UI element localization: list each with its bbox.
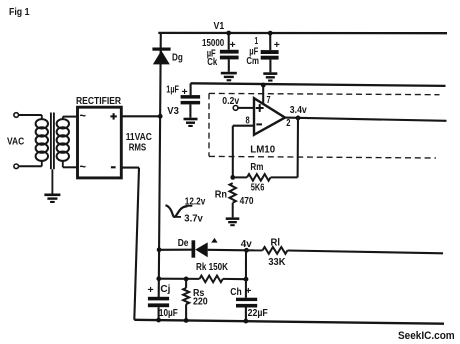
svg-text:Cm: Cm — [246, 56, 259, 67]
transformer T1 primary terminals — [14, 113, 19, 169]
resistor Rs — [183, 279, 189, 320]
svg-text:Ch: Ch — [230, 287, 241, 298]
junction rectifier + on main bus — [158, 114, 163, 119]
wire: De diode left segment — [159, 249, 191, 251]
svg-text:Rk 150K: Rk 150K — [196, 262, 228, 273]
op-amp minus input symbol — [256, 123, 262, 125]
wire: 0.2v terminal to op-amp + input — [238, 107, 254, 109]
svg-text:+: + — [148, 284, 154, 296]
junction Rm/Rn/pin8 node — [230, 175, 235, 180]
svg-text:220: 220 — [193, 296, 208, 307]
svg-text:VAC: VAC — [7, 137, 25, 148]
wire: VAC top lead — [19, 114, 42, 116]
ripple waveform annotation — [166, 205, 193, 217]
svg-text:Rl: Rl — [271, 238, 281, 249]
junction Cj bottom on rail — [156, 318, 161, 323]
resistor Rn — [230, 183, 236, 217]
svg-text:3.7v: 3.7v — [184, 214, 203, 225]
junction 4v node — [244, 248, 249, 253]
wire: bottom ground rail — [134, 320, 444, 324]
dashed boundary of LM10 module: left edge — [208, 93, 210, 156]
dashed boundary of LM10 module: top edge — [209, 93, 440, 94]
svg-text:RMS: RMS — [129, 143, 147, 154]
capacitor Ch labels — [230, 285, 268, 319]
transformer T1 secondary winding — [57, 117, 69, 168]
capacitor V3 value and polarity labels — [166, 84, 187, 117]
wire: secondary top lead to rectifier — [63, 116, 78, 118]
op-amp plus input symbol — [256, 104, 264, 112]
dashed boundary of LM10 module: bottom edge — [209, 156, 436, 158]
svg-text:22µF: 22µF — [248, 308, 268, 319]
wire: V3 regulated rail — [191, 83, 446, 86]
wire: negative bus vertical — [134, 168, 139, 320]
svg-text:Cj: Cj — [160, 284, 170, 295]
svg-text:+: + — [230, 39, 236, 51]
svg-text:Rm: Rm — [250, 162, 263, 173]
label 11VAC RMS — [126, 132, 153, 153]
rectifier plus output mark — [110, 113, 116, 119]
svg-text:+: + — [245, 285, 251, 297]
junction De wire on main bus — [157, 247, 162, 252]
svg-text:V1: V1 — [214, 21, 225, 32]
junction on V1 rail at Cm — [268, 31, 273, 36]
svg-text:~: ~ — [80, 109, 87, 123]
rectifier minus output mark — [111, 166, 116, 168]
svg-text:V3: V3 — [167, 106, 179, 117]
pin 8 wire — [233, 125, 254, 127]
svg-text:0.2v: 0.2v — [222, 96, 239, 107]
small arrow marker above De — [211, 238, 217, 243]
svg-text:+: + — [274, 39, 280, 51]
svg-text:5K6: 5K6 — [251, 182, 265, 193]
svg-text:Ck: Ck — [207, 57, 217, 68]
capacitor Ck — [220, 33, 239, 72]
capacitor Ck value and polarity labels — [202, 38, 236, 68]
resistor Rm — [233, 174, 298, 181]
wire: De diode right segment to 4v node — [208, 249, 247, 252]
svg-text:15000: 15000 — [202, 38, 225, 49]
svg-text:33K: 33K — [268, 257, 286, 268]
diode Dg — [152, 48, 170, 65]
ground for Cm — [263, 72, 277, 81]
rectifier bridge U2 box — [78, 107, 122, 178]
wire: V1 top rail — [158, 32, 447, 35]
svg-text:10µF: 10µF — [159, 308, 178, 319]
resistor Rk — [159, 276, 246, 283]
op-amp U1 LM10 triangle — [254, 98, 285, 135]
wire: feedback vertical from output to Rm — [297, 118, 299, 177]
capacitor Ch — [236, 298, 257, 321]
svg-text:1µF: 1µF — [166, 84, 179, 95]
ground for V3 capacitor — [184, 118, 198, 127]
svg-text:+: + — [182, 86, 188, 98]
resistor Rl — [247, 247, 444, 254]
wire: Ch vertical from 4v node — [245, 250, 247, 297]
junction Rs bottom on rail — [184, 318, 189, 323]
capacitor Cj — [148, 297, 169, 320]
junction Rk wire on main bus — [156, 276, 161, 281]
ground for Ck — [221, 72, 237, 81]
transformer T1 core — [51, 113, 54, 170]
junction Rk right / Ch line — [244, 277, 249, 282]
wire: VAC bottom lead — [19, 165, 42, 167]
svg-text:De: De — [178, 238, 189, 249]
junction Ch bottom on rail — [244, 319, 249, 324]
junction pin7 on V3 rail — [261, 83, 266, 88]
svg-text:LM10: LM10 — [250, 144, 275, 155]
svg-text:8: 8 — [246, 115, 251, 126]
capacitor V3 (1uF) — [181, 83, 201, 117]
junction on V1 rail at Ck — [226, 31, 231, 36]
svg-text:SeekIC.com: SeekIC.com — [398, 330, 455, 342]
wire: pin8 vertical down to Rm/Rn node — [232, 126, 234, 178]
svg-text:3.4v: 3.4v — [290, 105, 307, 116]
capacitor Cj labels — [148, 284, 178, 319]
capacitor Cm value and polarity labels — [246, 36, 280, 67]
junction on output at feedback tap — [296, 116, 301, 121]
junction Rs top — [184, 277, 189, 282]
svg-text:Fig 1: Fig 1 — [9, 7, 30, 18]
wire: secondary bottom lead to rectifier — [63, 166, 78, 168]
wire: op-amp output line to right edge — [285, 118, 447, 121]
svg-text:2: 2 — [286, 118, 291, 129]
wire: transformer center tap to ground — [51, 169, 53, 193]
svg-text:RECTIFIER: RECTIFIER — [76, 96, 122, 107]
wire: rectifier + output to main bus — [121, 115, 160, 117]
transformer T1 primary winding — [36, 115, 48, 166]
svg-text:12.2v: 12.2v — [185, 197, 206, 208]
svg-text:470: 470 — [240, 196, 254, 207]
wire: main vertical bus (diode Dg anode line down to Cj) — [159, 33, 161, 297]
ground for transformer — [44, 194, 60, 204]
ground for Rn — [226, 217, 240, 226]
pin 7 lead — [262, 85, 264, 105]
node 0.2v input terminal — [233, 106, 238, 111]
svg-text:Rn: Rn — [215, 190, 227, 201]
svg-text:7: 7 — [267, 95, 271, 106]
svg-text:~: ~ — [80, 160, 87, 174]
svg-text:Dg: Dg — [172, 53, 183, 64]
wire: rectifier - output — [121, 167, 139, 169]
capacitor Cm — [261, 33, 279, 72]
diode De — [192, 240, 208, 257]
